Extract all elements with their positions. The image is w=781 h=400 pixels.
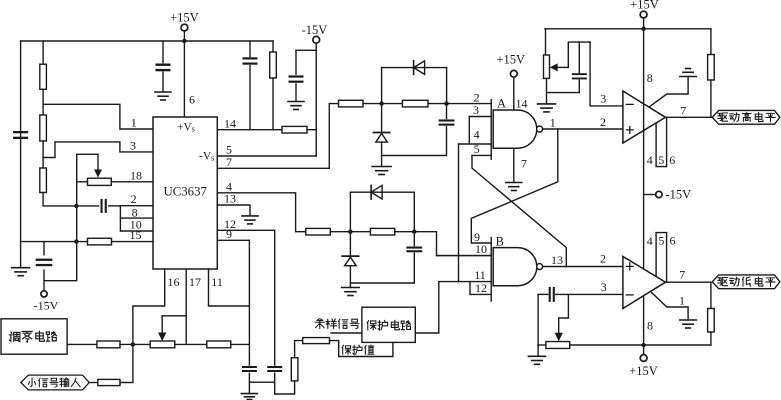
label 采样信号 <box>315 319 325 329</box>
diode D3 <box>370 185 372 199</box>
wire +15V bottom stem <box>643 345 645 355</box>
svg-text:13: 13 <box>224 192 236 206</box>
svg-text:14: 14 <box>516 97 528 111</box>
svg-text:5: 5 <box>658 234 664 248</box>
resistor R7 <box>339 100 364 107</box>
wire R5 to -15V rail <box>307 129 316 131</box>
wire op2 inv wire <box>538 293 548 295</box>
svg-text:6: 6 <box>670 234 676 248</box>
capacitor C2 (pin2) <box>101 199 103 213</box>
svg-text:-15V: -15V <box>666 188 692 202</box>
gate A input bar <box>490 100 492 160</box>
wire pin 4 <box>217 193 305 232</box>
svg-text:1: 1 <box>550 115 556 129</box>
terminal -15V bottom-left <box>41 291 47 297</box>
svg-text:2: 2 <box>600 115 606 129</box>
wire R11 bottom <box>275 381 295 394</box>
wire fb R17 bottom <box>710 332 712 345</box>
node B (pin15/neg15 branch) <box>74 239 78 243</box>
svg-text:A: A <box>497 97 506 111</box>
label 保护值 <box>342 345 351 354</box>
wire pot wiper jog <box>77 153 98 155</box>
op-amp N2 plus <box>626 263 633 270</box>
terminal -15V mid <box>656 191 662 197</box>
wire gate A pin5 <box>472 154 491 156</box>
wire bottom rail <box>570 344 711 346</box>
wire +15V top rail <box>545 28 711 30</box>
resistor R8 <box>402 100 428 107</box>
resistor R1 (divider top) <box>40 64 47 89</box>
terminal +15V gate A <box>510 70 517 77</box>
wire rail gateA pin4 to gateB pin11 <box>458 144 460 282</box>
label 调零电路 <box>9 332 20 341</box>
wire pin 6 (UC3637 +Vs) <box>183 41 185 117</box>
potentiometer RP1 wiper arrow <box>97 154 99 171</box>
wire loop B top <box>350 191 414 193</box>
wire pin 2 into box <box>120 205 153 207</box>
wire RP3 to ground <box>546 78 548 104</box>
wire gnd rail B <box>350 282 414 284</box>
svg-text:18: 18 <box>130 168 142 182</box>
svg-text:7: 7 <box>680 103 686 117</box>
potentiometer RP2 wiper arrow <box>161 316 163 334</box>
ground (op2 pin1) <box>680 319 697 321</box>
wire gnd stem op2 <box>537 345 539 356</box>
node A (divider bottom) <box>74 204 78 208</box>
ground (bottom-left op2) <box>529 355 546 357</box>
wire crossover A-out to B-in <box>471 129 558 243</box>
wire loop A right <box>446 68 448 104</box>
wire op2 pin1 <box>652 293 688 320</box>
wire C10 stem <box>578 42 580 72</box>
wire top-left rail <box>21 40 273 42</box>
wire op1 output <box>666 116 713 118</box>
ground (D2) <box>372 166 391 168</box>
potentiometer RP3 wiper arrow <box>556 66 568 68</box>
node G <box>131 342 135 346</box>
svg-text:17: 17 <box>189 275 201 289</box>
capacitor C10 <box>572 73 587 75</box>
wire gate A pin3 <box>469 116 491 118</box>
wire loop B right <box>413 192 415 232</box>
wire pin 12 <box>217 230 274 365</box>
potentiometer RP4 body <box>546 342 570 349</box>
svg-text:+15V: +15V <box>170 11 199 25</box>
ground (left rail) <box>12 267 30 269</box>
svg-text:1: 1 <box>131 116 137 130</box>
wire gate B output <box>543 266 623 268</box>
resistor R9 <box>306 228 331 235</box>
svg-text:B: B <box>496 234 504 248</box>
wire C6 stem <box>446 104 448 119</box>
wire pin 1 tap <box>43 104 153 129</box>
svg-text:10: 10 <box>475 242 487 256</box>
wire gate B pins11-12 jumper <box>469 282 471 295</box>
svg-text:7: 7 <box>679 267 685 281</box>
svg-text:3: 3 <box>130 139 136 153</box>
potentiometer RP3 body <box>544 55 550 78</box>
terminal +15V top-right <box>640 11 647 18</box>
capacitor C5 <box>289 75 304 77</box>
ground (C12) <box>155 91 171 93</box>
wire crossover A-pin5 to B-out <box>472 155 566 266</box>
small-signal input flag <box>21 375 89 390</box>
capacitor C3 (-15V left) <box>36 259 53 261</box>
wire left rail <box>20 41 22 268</box>
svg-text:5: 5 <box>658 153 664 167</box>
op-amp N1 body <box>623 91 666 143</box>
svg-text:+15V: +15V <box>630 0 659 12</box>
svg-text:4: 4 <box>474 127 480 141</box>
svg-text:3: 3 <box>473 103 479 117</box>
svg-text:2: 2 <box>131 192 137 206</box>
svg-text:13: 13 <box>551 253 563 267</box>
IC U1 UC3637 box <box>153 117 217 269</box>
wire rail to RP3 <box>545 29 547 55</box>
op-amp N2 body <box>623 257 666 309</box>
resistor R3 (divider low) <box>40 168 47 193</box>
capacitor C8 (pin9) <box>242 366 257 368</box>
wire rail corner to R6 <box>272 41 274 52</box>
wire C7 stem <box>413 232 415 246</box>
wire C5 stem <box>295 50 297 74</box>
wire C12 to ground <box>162 72 164 92</box>
svg-text:16: 16 <box>168 275 180 289</box>
wire fb R16 top <box>710 29 712 55</box>
wire wiper link op2 <box>559 294 569 318</box>
NAND gate B body <box>493 248 537 286</box>
wire C5 top link <box>296 49 316 51</box>
wire divider b <box>42 141 44 168</box>
wire pin 11 <box>209 269 250 306</box>
wire loop A left <box>381 68 383 104</box>
wire op pins 8-4 rail <box>643 29 645 346</box>
resistor R15 <box>98 379 120 385</box>
wire C11 left down <box>537 294 539 346</box>
svg-text:12: 12 <box>475 281 487 295</box>
diode D4 <box>342 255 358 257</box>
capacitor C9 (pin12) <box>267 366 282 368</box>
wire C7 bottom <box>413 253 415 283</box>
op-amp N1 minus <box>626 103 633 105</box>
label 驱动高电平 <box>718 113 728 121</box>
flag drive-high <box>712 110 780 124</box>
wire D4 to gnd bar <box>349 266 351 288</box>
ground (RP3) <box>538 103 556 105</box>
wire pin 16 <box>133 269 165 344</box>
svg-text:15: 15 <box>130 228 142 242</box>
svg-text:6: 6 <box>669 153 675 167</box>
wire cap to pin2 <box>109 205 121 207</box>
flag drive-low <box>712 275 780 289</box>
svg-text:9: 9 <box>226 227 232 241</box>
wire protection out to gate B pin11 <box>415 282 439 333</box>
wire R11 top <box>295 341 303 358</box>
wire pin 10 <box>120 230 153 232</box>
potentiometer RP1 body <box>88 178 112 185</box>
op2 pins 5-6 link <box>656 233 667 283</box>
NAND gate B bubble <box>537 264 543 270</box>
wire D2 stem <box>381 104 383 132</box>
svg-text:7: 7 <box>226 155 232 169</box>
wire pin 15 right <box>112 241 154 243</box>
wire zero-adjust out <box>67 343 97 345</box>
junction +15V bottom <box>641 343 645 347</box>
wire RP2 to R14 <box>175 343 207 345</box>
wire C11 to op2 <box>556 293 623 295</box>
wire -15V cap stem top <box>43 242 45 255</box>
node C <box>379 101 383 105</box>
ground (pin13) <box>242 215 258 217</box>
resistor R6 <box>270 52 277 78</box>
NAND gate A body <box>493 110 537 148</box>
svg-text:UC3637: UC3637 <box>164 185 208 199</box>
terminal +15V bottom <box>640 355 647 362</box>
resistor R14 <box>207 341 231 348</box>
node F <box>412 230 416 234</box>
wire -15V rail <box>315 43 317 156</box>
resistor R12 <box>303 338 330 344</box>
wire RP3 wiper up <box>568 42 590 67</box>
wire fb R17 top <box>710 282 712 308</box>
wire R10-out <box>395 232 491 256</box>
svg-text:3: 3 <box>600 92 606 106</box>
protection circuit box <box>362 307 415 342</box>
potentiometer RP4 wiper arrow <box>558 318 560 334</box>
wire gate A pin4 <box>459 143 492 145</box>
junction +15V rail <box>641 27 645 31</box>
gate B input bar <box>490 238 492 301</box>
label 小信号输入 <box>28 378 35 387</box>
wire divider c to corner <box>43 193 76 206</box>
wire C8 to gnd <box>248 373 250 393</box>
wire fb R16 bottom <box>710 80 712 117</box>
wire pin 5 <box>217 155 316 157</box>
wire C4 to pin14 <box>249 66 251 130</box>
capacitor C12 <box>156 64 171 66</box>
capacitor C6 <box>439 119 455 121</box>
wire cap C12 stem <box>162 41 164 63</box>
svg-text:11: 11 <box>211 275 223 289</box>
wire divider rail top <box>42 41 44 64</box>
resistor R4 (pin15) <box>88 238 112 245</box>
svg-text:3: 3 <box>601 280 607 294</box>
diode D2 <box>373 132 389 134</box>
resistor R17 <box>708 309 715 333</box>
capacitor C1 (left rail) <box>13 131 28 133</box>
svg-text:4: 4 <box>647 153 653 167</box>
potentiometer RP2 body <box>150 341 175 348</box>
wire C6 bottom link <box>382 127 447 156</box>
diode D1 <box>413 61 415 75</box>
wire pin 7 <box>217 104 329 169</box>
wire input to R15 <box>89 382 98 384</box>
terminal +15V top-left <box>181 24 188 31</box>
ground (gate A pin7) <box>506 182 522 184</box>
wire C10 down <box>547 80 580 92</box>
resistor R5 (pin14) <box>282 126 307 133</box>
wire R8-out <box>428 103 491 105</box>
wire R13 to node <box>120 343 150 345</box>
wire bottom rail left <box>538 344 546 346</box>
wire gate A pins3-4 jumper <box>468 117 470 145</box>
wire divider a <box>42 89 44 115</box>
wire gate A output <box>543 128 623 130</box>
wire C8-C9 link <box>249 381 274 383</box>
ground (C5) <box>288 101 304 103</box>
svg-text:+15V: +15V <box>629 364 658 378</box>
wire pot left terminal <box>77 181 88 183</box>
wire pin 15 left <box>21 241 88 243</box>
wire loop A top <box>382 67 447 69</box>
svg-text:-15V: -15V <box>34 299 59 313</box>
ground (C8) <box>241 393 257 395</box>
node E <box>348 230 352 234</box>
svg-text:11: 11 <box>474 268 486 282</box>
wire cap C4 stem <box>249 41 251 57</box>
svg-text:8: 8 <box>647 319 653 333</box>
wire gate B pin10 <box>437 255 492 257</box>
resistor R11 (protection) <box>291 358 298 381</box>
resistor R10 <box>370 228 394 235</box>
wire R9-R10 <box>330 231 370 233</box>
ground (op1 pin1) <box>680 76 697 78</box>
resistor R16 <box>708 55 715 81</box>
svg-text:6: 6 <box>189 93 195 107</box>
op-amp N2 minus <box>626 294 633 296</box>
wire R7-R8 <box>329 103 402 105</box>
wire gate A pin14 power <box>513 77 515 110</box>
wire protection value <box>330 341 393 357</box>
wire sampling signal stub <box>331 332 362 334</box>
wire -15V cap stem bottom <box>43 270 45 290</box>
wire RP2 wiper to pin17 <box>162 315 186 317</box>
svg-text:1: 1 <box>679 293 685 307</box>
capacitor C11 <box>549 287 551 302</box>
wire pin 14 <box>217 129 282 131</box>
op1 pins 5-6 link <box>656 117 667 166</box>
NAND gate A bubble <box>537 126 543 132</box>
wire D4 stem <box>349 232 351 255</box>
resistor R13 <box>97 341 120 348</box>
node D <box>444 101 448 105</box>
zero-adjust circuit box <box>1 319 67 354</box>
gate A pin7 ground stem <box>513 148 515 182</box>
wire pin 9 <box>217 240 249 365</box>
capacitor C7 <box>406 247 422 249</box>
wire +15V term to rail <box>643 18 645 29</box>
wire pin 17 <box>185 269 187 344</box>
svg-text:-15V: -15V <box>302 23 328 37</box>
resistor R2 (divider mid) <box>40 115 47 141</box>
wire node column <box>44 154 77 280</box>
wire -15V stub <box>644 194 656 196</box>
wire op2 output <box>666 281 713 283</box>
wire pin 3 tap <box>43 142 153 158</box>
wire node to cap <box>76 205 98 207</box>
terminal -15V top <box>313 36 320 43</box>
wire loop B left <box>349 192 351 232</box>
wire fb to op1 inv <box>590 42 623 106</box>
wire pin 13 <box>217 205 250 216</box>
svg-text:5: 5 <box>474 142 480 156</box>
wire R15 to node G <box>120 344 133 382</box>
ground (D4) <box>342 287 360 289</box>
svg-text:2: 2 <box>600 252 606 266</box>
op-amp N1 plus <box>626 127 633 134</box>
wire R6 to pin14 <box>272 78 274 130</box>
wire gate B pin12 <box>470 293 491 295</box>
wire op1 pin1 <box>650 77 688 107</box>
svg-text:7: 7 <box>521 157 527 171</box>
label 驱动低电平 <box>718 278 728 286</box>
wire gate B pin11 <box>439 281 491 283</box>
wire C9 down <box>274 373 276 394</box>
svg-text:+15V: +15V <box>497 52 526 66</box>
label 保护电路 <box>367 320 376 330</box>
svg-text:8: 8 <box>647 71 653 85</box>
wire C5 to ground <box>295 84 297 102</box>
wire +15V to node <box>183 31 185 41</box>
capacitor C4 <box>243 57 258 59</box>
junction +15V/pin6 <box>182 39 186 43</box>
svg-text:4: 4 <box>647 234 653 248</box>
wire D2 to gnd <box>381 142 383 166</box>
svg-text:14: 14 <box>224 116 236 130</box>
wire R14 to pin9 rail <box>231 343 250 345</box>
wire pins 2-8-10 jumper <box>119 206 121 231</box>
wire pin 18 <box>111 181 153 183</box>
wire pin 8 <box>120 217 153 219</box>
